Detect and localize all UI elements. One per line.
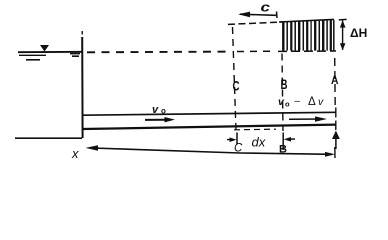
gate wall vertical (81, 37, 83, 138)
svg-text:B: B (279, 144, 287, 156)
x dimension left arrowhead (86, 145, 99, 151)
section line A dashed (334, 58, 337, 106)
surface end tick at A (335, 108, 337, 118)
svg-text:o: o (285, 100, 290, 109)
bed dashed overlay C to B (234, 128, 276, 131)
water surface scribble near gate (70, 54, 80, 57)
svg-text:B: B (281, 76, 288, 92)
wave front top dashed line (228, 22, 282, 24)
level dashed line under hatch (237, 50, 272, 52)
svg-text:v: v (278, 96, 285, 108)
surge block hatching (283, 20, 334, 50)
dH bottom arrowhead (340, 43, 346, 50)
bed end tick at A (335, 121, 337, 131)
x dimension long line (92, 148, 332, 154)
section line C dashed (233, 27, 237, 131)
v0-dv arrow (289, 118, 322, 120)
svg-text:dx: dx (252, 135, 266, 150)
svg-text:C: C (233, 78, 240, 94)
A up arrow below bed (335, 138, 337, 149)
v0 arrowhead (165, 117, 176, 122)
dH top arrowhead (340, 20, 346, 27)
celerity arrow shaft (240, 14, 276, 15)
v0 arrow (145, 119, 166, 121)
x dimension right arrowhead (325, 152, 335, 157)
downstream water surface line (83, 112, 336, 115)
svg-text:–: – (295, 96, 301, 107)
svg-text:ΔH: ΔH (350, 26, 367, 40)
upstream bed step line (15, 137, 82, 139)
channel bed line (83, 125, 336, 129)
gate wall dash-dot top tick (81, 31, 83, 35)
water surface under-dash 1 (19, 54, 46, 56)
section line B dashed (282, 54, 283, 132)
reservoir water surface line (18, 51, 82, 53)
svg-text:x: x (71, 146, 79, 161)
initial water level dashed line (87, 51, 232, 54)
svg-text:v: v (318, 96, 324, 108)
dH dimension top bar (339, 18, 347, 21)
v0-dv arrowhead (315, 116, 327, 121)
celerity arrow end tick (276, 12, 279, 19)
svg-text:A: A (331, 75, 339, 87)
svg-text:v: v (152, 104, 159, 116)
dx left arrow (227, 139, 232, 141)
dx right arrow (288, 138, 295, 140)
water surface marker triangle (40, 45, 49, 52)
dx left tick (236, 133, 238, 145)
surge block bottom dashes (278, 50, 336, 52)
surge block top line (279, 19, 334, 22)
svg-text:c: c (261, 0, 272, 15)
svg-text:Δ: Δ (308, 96, 316, 108)
svg-text:o: o (161, 107, 166, 116)
dH dimension line (342, 21, 344, 50)
svg-text:C: C (234, 143, 243, 155)
water surface under-dash 2 (26, 59, 40, 61)
x dimension right end tick (334, 147, 336, 158)
celerity arrowhead (238, 12, 250, 18)
dx right tick (282, 133, 284, 151)
